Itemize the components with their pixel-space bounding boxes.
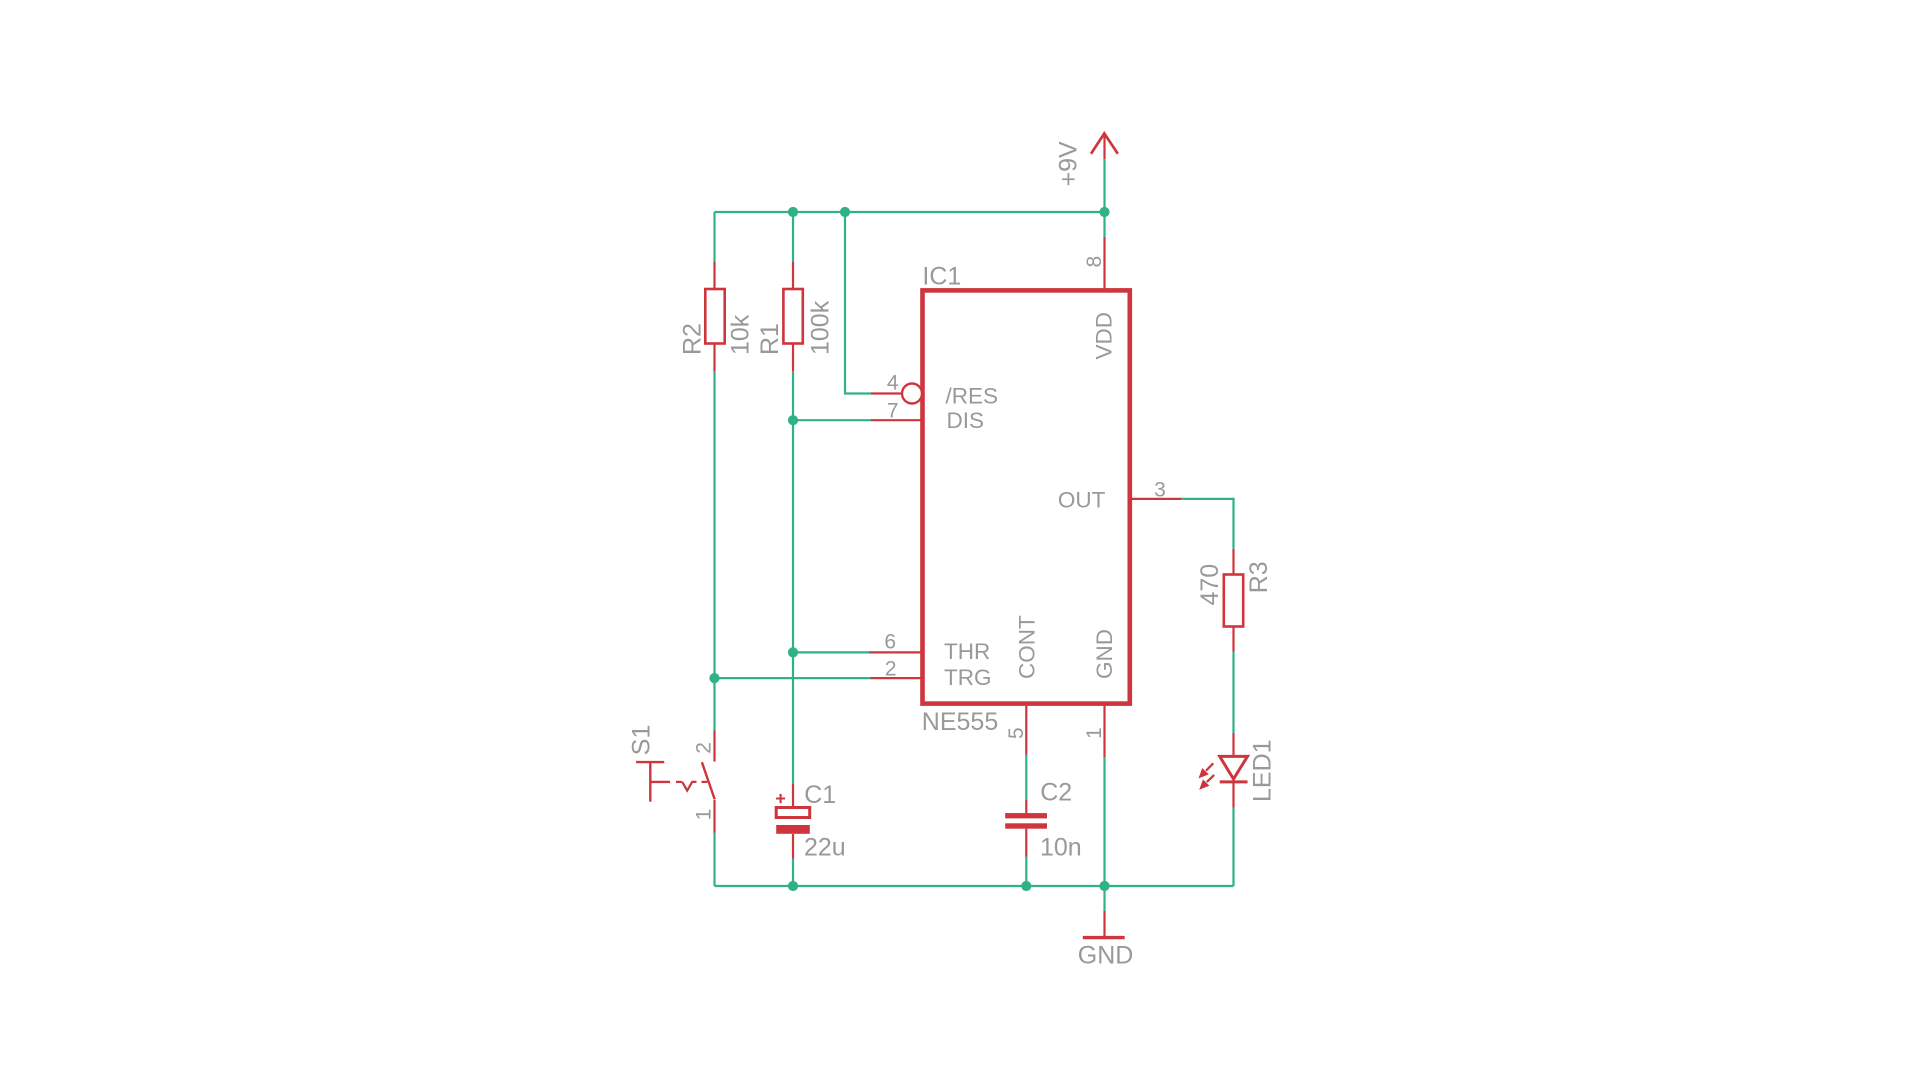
svg-text:OUT: OUT — [1058, 488, 1106, 513]
svg-text:10n: 10n — [1040, 834, 1082, 862]
svg-text:7: 7 — [887, 400, 899, 423]
svg-text:CONT: CONT — [1015, 615, 1040, 679]
svg-text:GND: GND — [1092, 629, 1117, 679]
svg-text:R3: R3 — [1245, 561, 1273, 593]
svg-text:R1: R1 — [756, 323, 784, 355]
svg-text:GND: GND — [1078, 942, 1134, 970]
svg-text:5: 5 — [1005, 727, 1028, 739]
svg-text:NE555: NE555 — [922, 708, 998, 736]
svg-text:LED1: LED1 — [1248, 739, 1276, 802]
svg-text:10k: 10k — [727, 314, 755, 355]
svg-text:100k: 100k — [807, 300, 835, 355]
svg-text:THR: THR — [944, 639, 990, 664]
svg-text:1: 1 — [693, 809, 716, 821]
svg-text:/RES: /RES — [946, 383, 999, 408]
svg-text:4: 4 — [887, 371, 899, 394]
svg-text:8: 8 — [1083, 256, 1106, 268]
svg-text:S1: S1 — [628, 725, 656, 756]
svg-text:C2: C2 — [1040, 778, 1072, 806]
svg-text:1: 1 — [1083, 727, 1106, 739]
svg-text:3: 3 — [1154, 479, 1166, 502]
svg-text:TRG: TRG — [944, 665, 992, 690]
svg-text:470: 470 — [1196, 564, 1224, 606]
svg-text:22u: 22u — [804, 833, 846, 861]
svg-text:VDD: VDD — [1092, 312, 1117, 360]
svg-text:DIS: DIS — [947, 408, 985, 433]
svg-text:C1: C1 — [804, 781, 836, 809]
svg-text:2: 2 — [885, 658, 897, 681]
svg-text:+9V: +9V — [1055, 141, 1083, 187]
svg-text:2: 2 — [693, 742, 716, 754]
svg-text:6: 6 — [884, 630, 896, 653]
svg-text:R2: R2 — [678, 323, 706, 355]
svg-text:IC1: IC1 — [922, 263, 961, 291]
